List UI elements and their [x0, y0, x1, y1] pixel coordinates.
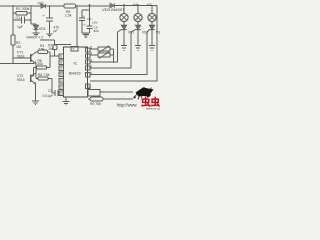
capacitor C3 [55, 90, 58, 96]
pin 1 box [86, 73, 91, 77]
switch box S [88, 90, 100, 97]
pin 13 [59, 91, 64, 96]
ground under IC [63, 97, 70, 105]
svg-text:1M: 1M [16, 45, 21, 49]
svg-text:1µF: 1µF [17, 25, 23, 29]
svg-text:8: 8 [60, 61, 62, 65]
svg-text:12: 12 [60, 86, 64, 90]
resistor R7 1M [53, 45, 57, 50]
ground under VS1 [121, 46, 127, 51]
resistor R2 1M [11, 35, 15, 45]
wire right leg of R1/C1 [31, 6, 36, 25]
wire gate loop pin2 [90, 32, 131, 68]
capacitor C5 [87, 26, 93, 29]
ground under C4 C5 [83, 35, 90, 38]
svg-text:C3: C3 [48, 89, 52, 93]
transistor VT2 [30, 75, 32, 83]
svg-text:9014: 9014 [17, 55, 25, 59]
wire R1 branch [13, 12, 31, 14]
svg-text:C1: C1 [16, 16, 21, 20]
IC U1 BH616 body [64, 47, 88, 97]
capacitor C2 470uF [46, 18, 53, 21]
watermark bug icon [134, 87, 154, 100]
ground under VD1 [33, 33, 40, 36]
pin 4 box [86, 54, 91, 58]
svg-text:VS2: VS2 [142, 31, 148, 35]
svg-text:0.01µF: 0.01µF [43, 94, 53, 98]
wire base input from left [0, 63, 34, 65]
svg-text:13: 13 [60, 92, 64, 96]
resistor R5 1.5k inline on rail [64, 4, 76, 8]
svg-text:3: 3 [90, 58, 92, 62]
wire gate loop pin3 [90, 32, 118, 62]
pin 12 [59, 85, 64, 90]
pin 7 top [71, 47, 78, 52]
wire VT1 emitter bus [35, 63, 37, 73]
svg-text:http://www.: http://www. [117, 103, 138, 108]
wire VT2 collector to R6 [36, 73, 52, 93]
wire left bus [12, 6, 14, 63]
wire C1 branch [13, 19, 31, 21]
svg-text:9: 9 [60, 67, 62, 71]
wire R7 feed [40, 40, 55, 56]
pin 11 [59, 79, 64, 84]
svg-text:9015: 9015 [17, 78, 25, 82]
svg-text:10V: 10V [92, 21, 98, 25]
svg-text:14: 14 [87, 85, 91, 89]
svg-text:VS1: VS1 [128, 31, 134, 35]
potentiometer RP1 [90, 48, 98, 50]
wire top VCC rail [0, 5, 157, 8]
pin 6 [59, 54, 64, 59]
ground under VS2 [135, 46, 141, 51]
pin 10 [59, 72, 64, 77]
resistor R1 200k [16, 12, 27, 16]
pin 5 box [86, 48, 91, 52]
wire rail return pin14 [90, 6, 157, 82]
svg-text:IN4007 × 2: IN4007 × 2 [27, 36, 44, 40]
svg-text:+: + [84, 23, 86, 27]
wire C3 branch [52, 92, 59, 94]
resistor R6 7.5k [38, 77, 48, 80]
svg-text:R6 7.5k: R6 7.5k [38, 73, 50, 77]
resistor R5b 30k [37, 66, 47, 69]
pin 14 box [86, 84, 91, 89]
wire 30k to pin6 [31, 56, 60, 76]
resistor R4 7.5k [38, 50, 48, 53]
svg-text:30k: 30k [38, 62, 44, 66]
svg-text:IC: IC [74, 62, 78, 66]
wire gate loop pin1 [90, 32, 147, 75]
svg-text:4: 4 [90, 51, 92, 55]
svg-text:7.5k: 7.5k [38, 47, 45, 51]
thyristor VS3 [147, 21, 152, 45]
svg-text:2: 2 [90, 64, 92, 68]
svg-text:VD1: VD1 [39, 27, 46, 31]
ground under C2 [46, 34, 52, 37]
svg-text:H1: H1 [133, 3, 138, 7]
svg-text:VD2: VD2 [38, 2, 44, 6]
svg-text:www.cc·com: www.cc·com [146, 106, 160, 110]
pin 3 box [86, 60, 91, 64]
diode VD3 [110, 3, 115, 7]
pin 9 [59, 66, 64, 71]
lamp H1 [134, 13, 142, 21]
svg-text:1M: 1M [48, 47, 53, 51]
wire zener branch [35, 30, 37, 33]
svg-text:5: 5 [90, 45, 92, 49]
svg-text:R9 70k: R9 70k [90, 102, 101, 106]
svg-text:10: 10 [60, 73, 64, 77]
wire lamp drops [124, 5, 152, 14]
wire pots to bus [110, 49, 114, 62]
thyristor VS1 [118, 21, 125, 45]
lamp H0 [120, 13, 128, 21]
svg-text:R1 200k: R1 200k [16, 7, 30, 11]
wire pin7 drop [55, 6, 78, 47]
ground under VS3 [149, 46, 155, 51]
svg-text:1.5k: 1.5k [65, 13, 72, 17]
transistor VT1 [13, 57, 31, 59]
svg-text:VS: VS [156, 31, 160, 35]
potentiometer RP2 [90, 54, 98, 56]
wire VT2 emitter down [35, 84, 37, 101]
lamp H2 [148, 13, 156, 21]
ground VT2 emitter [32, 101, 39, 105]
svg-text:6: 6 [60, 55, 62, 59]
wire VT1 collector to R4 [36, 52, 50, 56]
svg-text:VD3 IN4007: VD3 IN4007 [102, 8, 125, 12]
resistor R9 70k [90, 97, 103, 101]
svg-text:BH616: BH616 [69, 72, 81, 76]
diode VD2 [41, 4, 46, 8]
capacitor C4 [79, 18, 85, 21]
svg-text:7: 7 [72, 48, 74, 52]
svg-text:H2: H2 [147, 3, 152, 7]
wire from switch [100, 91, 133, 93]
capacitor C1 [22, 17, 25, 24]
pin 8 [59, 60, 64, 65]
wire C4/C5 branch [82, 5, 90, 33]
svg-text:1: 1 [90, 71, 92, 75]
svg-text:+: + [83, 15, 85, 19]
diode VD1 zener [34, 25, 39, 29]
svg-text:µF: µF [54, 29, 58, 33]
thyristor VS2 [131, 21, 138, 45]
svg-text:11: 11 [60, 79, 64, 83]
svg-text:50V: 50V [94, 29, 100, 33]
pin 2 box [86, 66, 91, 70]
wire C2 drop [49, 6, 51, 34]
junction dots [12, 4, 139, 74]
